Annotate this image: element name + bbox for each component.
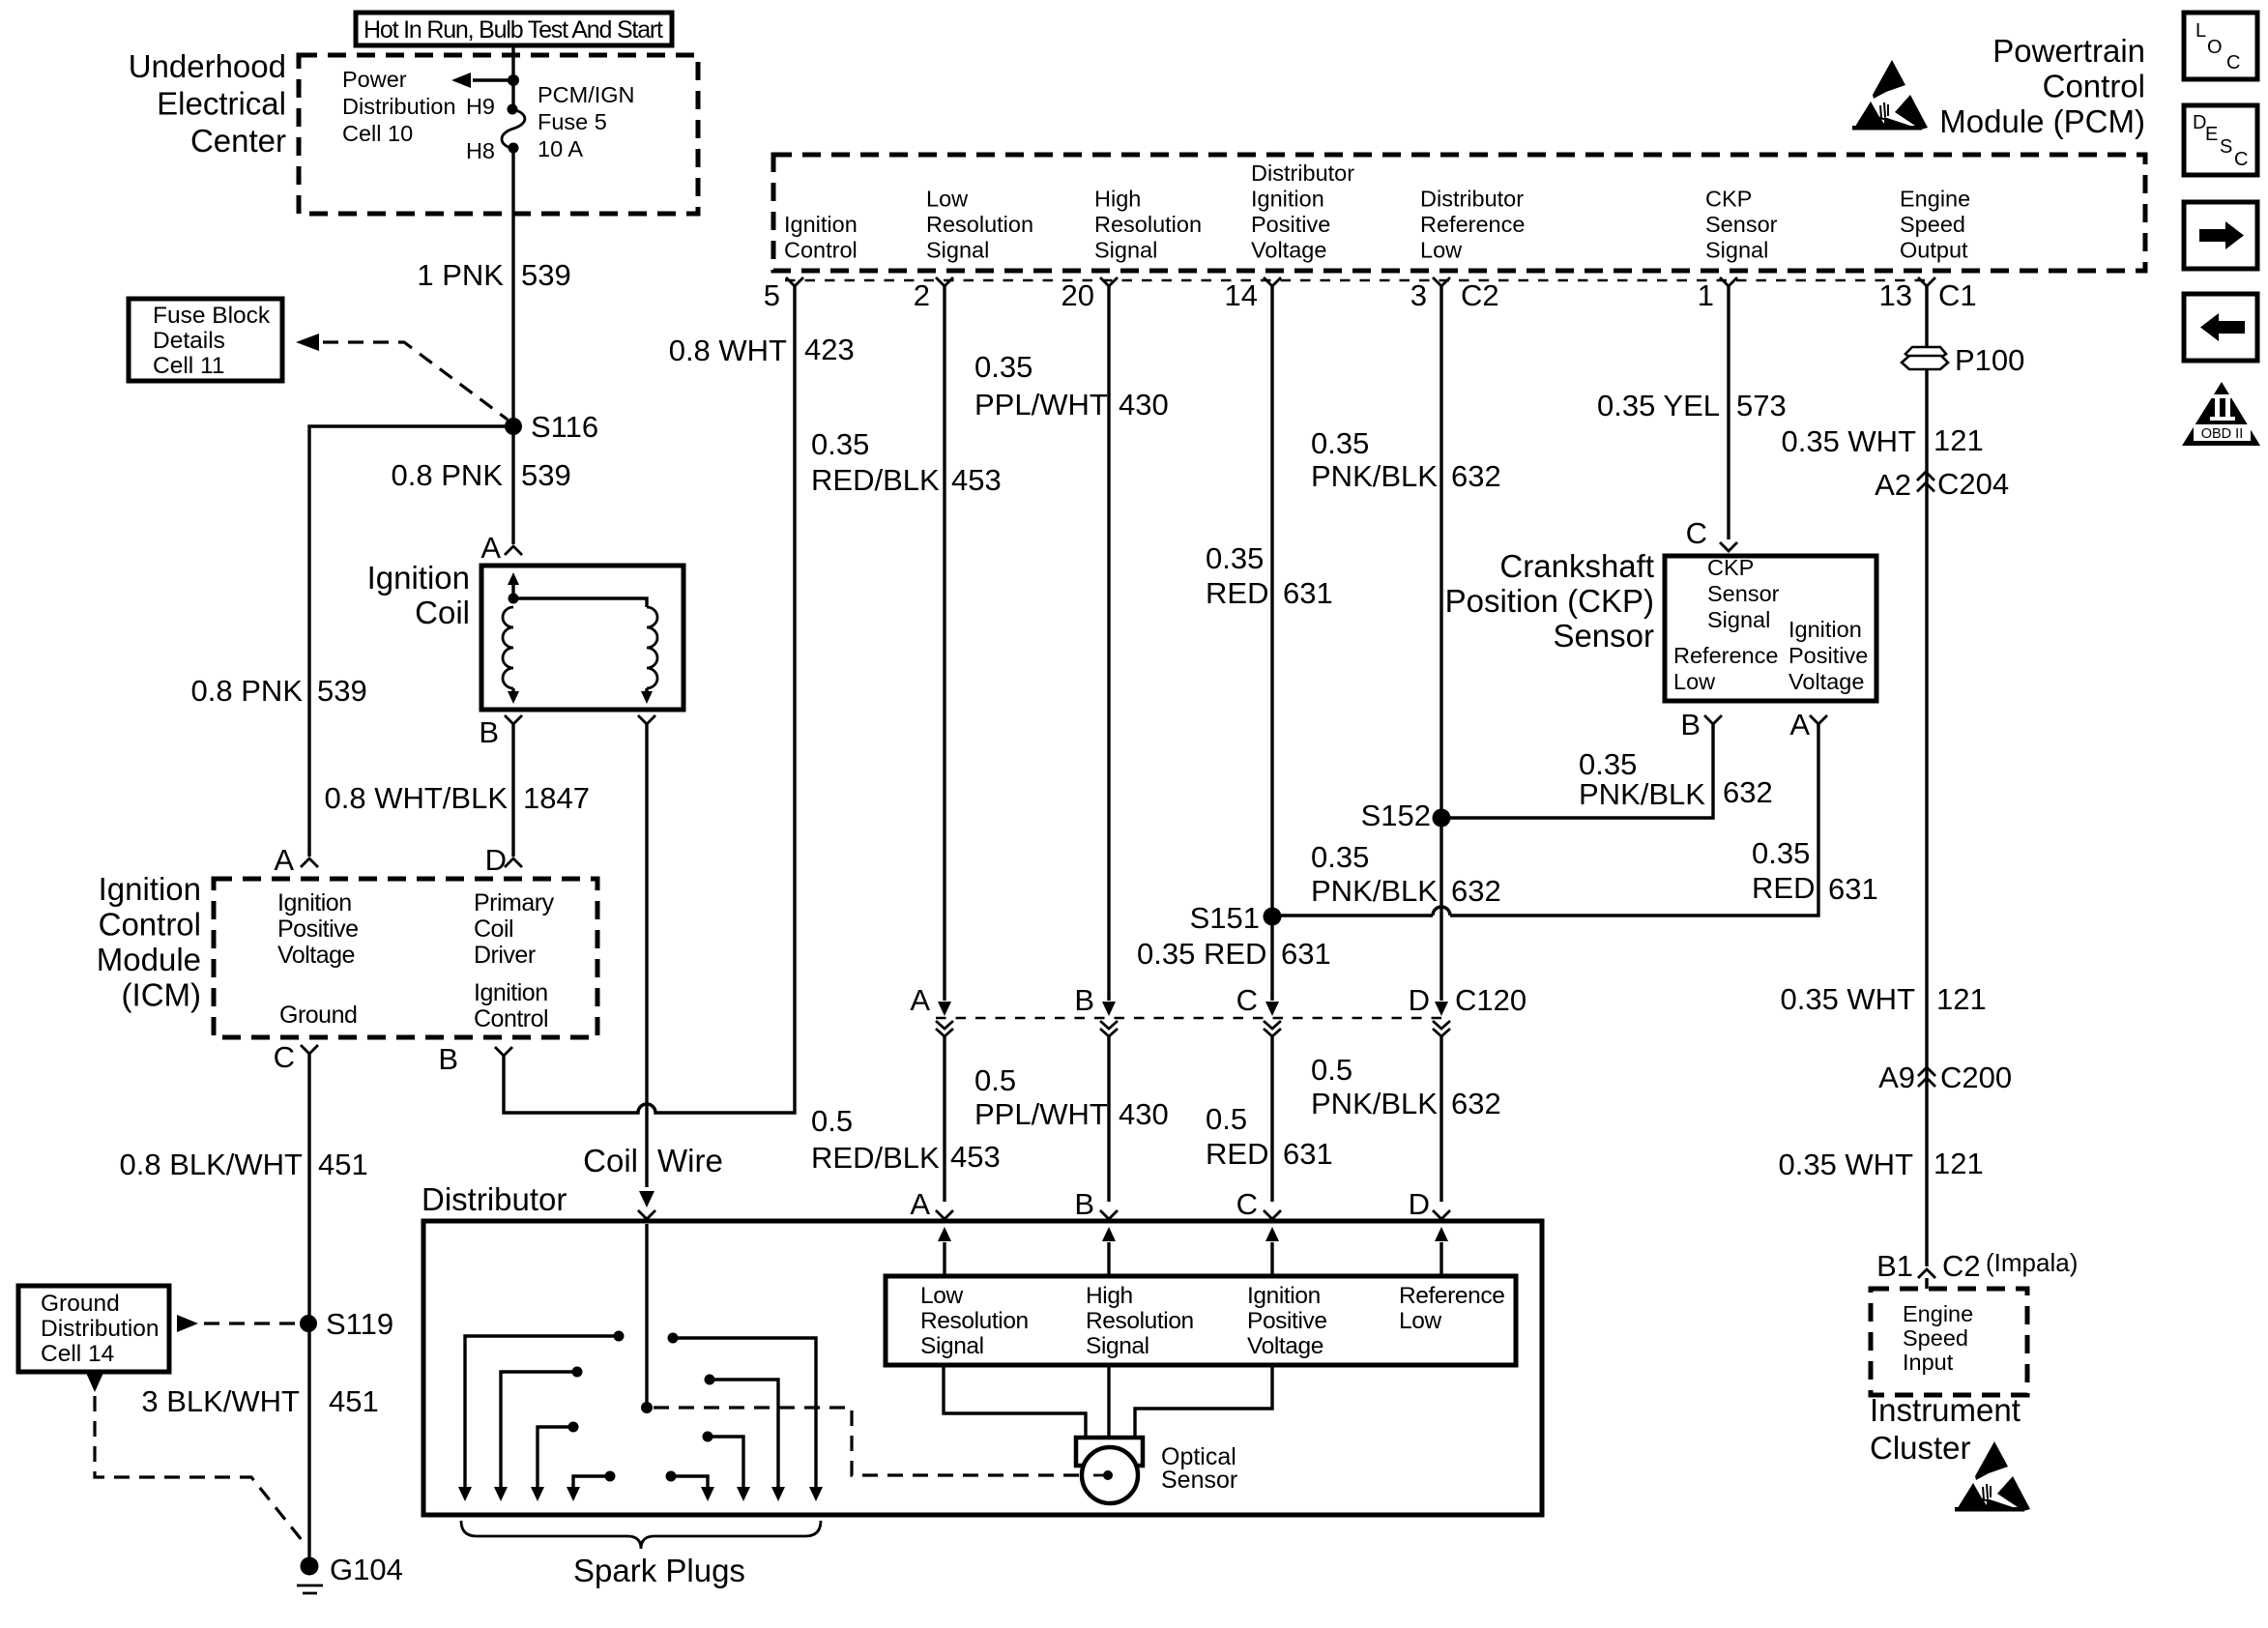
wire 0.8 PNK 539 (S116 down to coil A): [392, 426, 571, 544]
coil secondary winding: [513, 598, 657, 704]
svg-text:Ground: Ground: [41, 1291, 120, 1317]
svg-text:0.5: 0.5: [974, 1063, 1016, 1097]
connector label C2: [1461, 278, 1499, 312]
svg-text:Distribution: Distribution: [41, 1316, 160, 1342]
svg-text:Ignition: Ignition: [367, 560, 470, 596]
svg-text:Reference: Reference: [1420, 212, 1525, 237]
Fuse Block Details callout box: [129, 299, 282, 381]
svg-text:Coil: Coil: [415, 595, 470, 630]
svg-text:C2: C2: [1461, 278, 1499, 312]
svg-text:C: C: [1686, 516, 1707, 550]
svg-text:Primary: Primary: [474, 889, 555, 916]
svg-text:Low: Low: [1420, 238, 1463, 263]
svg-text:S116: S116: [531, 410, 598, 444]
connector label C120: [1455, 983, 1527, 1017]
label Distributor: [422, 1181, 567, 1217]
svg-text:RED/BLK: RED/BLK: [811, 463, 940, 497]
svg-text:Resolution: Resolution: [1094, 212, 1202, 237]
svg-text:Positive: Positive: [1247, 1308, 1327, 1334]
svg-text:121: 121: [1934, 423, 1984, 457]
CKP pin C: [1686, 516, 1737, 551]
svg-text:PPL/WHT: PPL/WHT: [974, 1097, 1108, 1131]
PCM connector C1/C2 dashed line: [785, 279, 1934, 282]
svg-text:0.35: 0.35: [1206, 541, 1264, 575]
svg-text:Speed: Speed: [1903, 1325, 1968, 1351]
junction dot and arrow to power distribution: [451, 73, 519, 88]
svg-text:Fuse 5: Fuse 5: [538, 109, 607, 134]
svg-text:Instrument: Instrument: [1870, 1392, 2021, 1428]
svg-text:Distributor: Distributor: [1420, 187, 1524, 212]
svg-text:Electrical: Electrical: [157, 86, 286, 122]
svg-text:Voltage: Voltage: [1247, 1333, 1323, 1359]
connector B1 C2 (Impala): [1876, 1248, 2078, 1289]
svg-text:539: 539: [317, 674, 367, 708]
svg-text:631: 631: [1828, 872, 1878, 906]
svg-text:PPL/WHT: PPL/WHT: [974, 388, 1108, 422]
svg-text:451: 451: [318, 1148, 368, 1181]
distributor pin D: [1409, 1187, 1450, 1221]
svg-text:Cell 10: Cell 10: [342, 121, 413, 146]
PCM label CKP Sensor Signal: [1705, 187, 1778, 263]
wire 0.35 RED/BLK 453 (pin 2 to C120 A): [811, 286, 1002, 1016]
svg-text:Wire: Wire: [657, 1143, 723, 1178]
rotor dashed link to optical sensor: [654, 1408, 1079, 1475]
label Engine Speed Input: [1903, 1301, 1973, 1375]
coil primary winding: [503, 572, 519, 704]
Crankshaft Position Sensor box: [1665, 556, 1876, 701]
svg-text:Positive: Positive: [277, 916, 359, 943]
wire 0.35 WHT 121 (pin 13, engine speed output): [1781, 286, 1983, 1266]
ICM label Primary Coil Driver: [474, 889, 555, 969]
forward arrow box: [2184, 202, 2257, 269]
svg-text:Control: Control: [474, 1005, 548, 1032]
distributor internal terminal arrow: [1265, 1227, 1279, 1276]
svg-text:S152: S152: [1361, 799, 1431, 832]
ignition coil pin A: [480, 531, 522, 565]
svg-text:B: B: [1074, 1187, 1094, 1221]
svg-text:Cluster: Cluster: [1870, 1430, 1971, 1466]
ICM label Ignition Positive Voltage: [277, 889, 359, 969]
spark plug wire 2: [494, 1367, 583, 1502]
svg-text:Module (PCM): Module (PCM): [1939, 103, 2145, 139]
svg-text:Output: Output: [1900, 238, 1968, 263]
svg-text:Positive: Positive: [1788, 643, 1868, 668]
svg-text:Ignition: Ignition: [1788, 617, 1862, 642]
svg-text:1 PNK: 1 PNK: [417, 258, 504, 292]
svg-text:Signal: Signal: [926, 238, 989, 263]
wire 0.35 PNK/BLK 632 (pin 3 to S152): [1311, 286, 1501, 822]
svg-text:0.5: 0.5: [1206, 1102, 1247, 1136]
svg-text:0.35: 0.35: [1579, 747, 1637, 781]
PCM pin 1: [1698, 277, 1737, 312]
svg-text:Low: Low: [1399, 1308, 1441, 1334]
wire ICM B to PCM pin 5 (ignition control): [504, 286, 795, 1113]
svg-text:C120: C120: [1455, 983, 1527, 1017]
svg-text:PCM/IGN: PCM/IGN: [538, 82, 635, 107]
svg-text:631: 631: [1283, 576, 1333, 610]
wire 0.35 RED 631 (CKP A to S151): [1272, 724, 1878, 916]
svg-text:Signal: Signal: [1707, 607, 1770, 632]
label Spark Plugs: [573, 1553, 745, 1588]
label Power Distribution Cell 10: [342, 67, 456, 146]
svg-text:Sensor: Sensor: [1705, 212, 1778, 237]
splice S116: [505, 410, 598, 444]
svg-text:Resolution: Resolution: [926, 212, 1033, 237]
svg-text:Positive: Positive: [1251, 212, 1330, 237]
label Ignition Coil: [367, 560, 470, 630]
svg-text:453: 453: [950, 1140, 1001, 1174]
svg-text:A: A: [910, 1187, 930, 1221]
label 0.8 PNK 539 (left branch): [191, 674, 367, 708]
distributor internal terminal arrow: [1102, 1227, 1116, 1276]
label Crankshaft Position (CKP) Sensor: [1445, 548, 1654, 654]
coil pin B: [479, 715, 522, 749]
wire 0.8 BLK/WHT 451 (ICM C to S119): [120, 1054, 368, 1557]
svg-text:PNK/BLK: PNK/BLK: [1311, 459, 1438, 493]
connector C120 pin C: [1236, 983, 1281, 1036]
svg-text:0.35: 0.35: [811, 427, 869, 461]
label Powertrain Control Module (PCM): [1939, 33, 2145, 139]
svg-text:2: 2: [914, 278, 930, 312]
svg-text:Low: Low: [926, 187, 969, 212]
svg-text:Voltage: Voltage: [1251, 238, 1326, 263]
svg-text:O: O: [2207, 37, 2223, 58]
distributor box: [423, 1221, 1542, 1515]
svg-text:631: 631: [1283, 1137, 1333, 1171]
svg-text:Driver: Driver: [474, 942, 536, 969]
Underhood Electrical Center dashed box: [299, 55, 698, 214]
ICM label Ignition Control: [474, 979, 548, 1032]
distributor pin B: [1074, 1187, 1118, 1221]
svg-text:Powertrain: Powertrain: [1992, 33, 2145, 69]
svg-text:Low: Low: [1673, 669, 1716, 694]
svg-text:B1: B1: [1876, 1249, 1913, 1283]
svg-text:Control: Control: [784, 238, 858, 263]
dashed ground path from cell 14 box to G104: [86, 1373, 305, 1545]
svg-text:121: 121: [1934, 1147, 1984, 1180]
svg-text:OBD II: OBD II: [2201, 426, 2244, 442]
svg-text:C200: C200: [1940, 1061, 2012, 1094]
spark plug wire 4: [567, 1471, 616, 1502]
svg-text:451: 451: [329, 1384, 379, 1418]
spark plugs brace: [461, 1521, 821, 1549]
svg-text:A9: A9: [1878, 1061, 1915, 1094]
svg-text:Ground: Ground: [279, 1002, 357, 1029]
svg-text:0.5: 0.5: [811, 1104, 853, 1138]
svg-text:Signal: Signal: [920, 1333, 984, 1359]
svg-text:B: B: [1680, 708, 1701, 741]
dashed arrow from S116 to Fuse Block Details: [296, 334, 508, 420]
LOC navigation box: [2184, 13, 2257, 79]
svg-text:CKP: CKP: [1707, 555, 1754, 580]
svg-text:Signal: Signal: [1086, 1333, 1149, 1359]
svg-text:Fuse Block: Fuse Block: [153, 303, 271, 329]
svg-text:Reference: Reference: [1673, 643, 1778, 668]
PCM pin 13: [1879, 277, 1935, 312]
CKP pin A: [1789, 708, 1827, 741]
coil tower terminal: [638, 1210, 655, 1219]
svg-text:0.35: 0.35: [1752, 836, 1810, 870]
wire 0.35 PNK/BLK 632 (CKP B to S152): [1441, 724, 1773, 818]
svg-text:Reference: Reference: [1399, 1283, 1504, 1309]
distributor label Low Resolution Signal: [920, 1283, 1029, 1359]
connector C120 pin D: [1409, 983, 1450, 1036]
svg-text:C204: C204: [1937, 467, 2009, 501]
svg-text:P100: P100: [1955, 343, 2024, 377]
svg-text:0.35: 0.35: [1311, 840, 1369, 874]
svg-text:RED/BLK: RED/BLK: [811, 1141, 940, 1175]
connector label C1: [1938, 278, 1977, 312]
wire 0.5 RED/BLK 453 (C120 A to distributor A): [811, 1036, 1001, 1202]
back arrow box: [2184, 294, 2257, 361]
svg-text:C: C: [2226, 52, 2240, 73]
svg-text:Distribution: Distribution: [342, 94, 456, 119]
svg-text:Ignition: Ignition: [474, 979, 548, 1006]
svg-text:A: A: [274, 843, 294, 877]
svg-text:632: 632: [1451, 1087, 1501, 1120]
svg-text:Underhood: Underhood: [129, 48, 286, 84]
svg-text:Details: Details: [153, 328, 225, 354]
wire 0.35 RED 631 (pin 14 to S151): [1206, 286, 1333, 916]
splice S151: [1190, 901, 1282, 935]
svg-text:A: A: [1789, 708, 1810, 741]
svg-text:Distributor: Distributor: [422, 1181, 567, 1217]
ignition coil box: [481, 566, 683, 710]
svg-text:C: C: [1236, 983, 1258, 1017]
svg-text:0.35 WHT: 0.35 WHT: [1780, 982, 1915, 1016]
ICM pin C: [274, 1040, 318, 1074]
svg-text:632: 632: [1723, 775, 1773, 809]
PCM label Ignition Control: [784, 212, 858, 263]
svg-text:Position (CKP): Position (CKP): [1445, 583, 1654, 619]
svg-text:453: 453: [951, 463, 1002, 497]
svg-text:L: L: [2195, 20, 2206, 42]
ICM pin D: [485, 843, 522, 877]
svg-text:Ignition: Ignition: [277, 889, 352, 916]
svg-text:539: 539: [521, 258, 571, 292]
svg-text:H8: H8: [466, 138, 495, 163]
wire 0.5 RED 631 (C120 C to distributor C): [1206, 1036, 1333, 1202]
svg-text:C: C: [2234, 149, 2248, 170]
OBD II symbol: [2182, 382, 2260, 446]
wire 0.35 PPL/WHT 430 (pin 20 to C120 B): [974, 286, 1169, 1016]
splice S119: [300, 1307, 393, 1341]
wire 0.35 YEL 573 (pin 1 to CKP C): [1597, 286, 1787, 539]
svg-text:423: 423: [804, 333, 855, 366]
svg-text:13: 13: [1879, 278, 1912, 312]
svg-text:PNK/BLK: PNK/BLK: [1311, 1087, 1438, 1120]
label Instrument Cluster: [1870, 1392, 2021, 1466]
wire 0.5 PPL/WHT 430 (C120 B to distributor B): [974, 1036, 1169, 1202]
svg-text:Hot In Run, Bulb Test And Star: Hot In Run, Bulb Test And Start: [363, 16, 663, 44]
svg-text:C: C: [1236, 1187, 1258, 1221]
label 0.35 WHT 121 (mid): [1780, 982, 1986, 1016]
svg-text:D: D: [1409, 983, 1430, 1017]
svg-text:Spark Plugs: Spark Plugs: [573, 1553, 745, 1588]
svg-text:A: A: [910, 983, 930, 1017]
svg-text:Resolution: Resolution: [1086, 1308, 1194, 1334]
svg-text:D: D: [485, 843, 507, 877]
connector C120 dashed line: [936, 1017, 1450, 1020]
optical sensor: [944, 1365, 1272, 1503]
svg-text:C2: C2: [1942, 1249, 1981, 1283]
spark plug wire 5: [666, 1471, 715, 1502]
svg-text:632: 632: [1451, 874, 1501, 908]
svg-text:Control: Control: [99, 907, 201, 943]
svg-text:1847: 1847: [523, 781, 590, 815]
PCM pin 5: [764, 277, 803, 312]
svg-text:A: A: [480, 531, 501, 565]
svg-text:H9: H9: [466, 94, 495, 119]
svg-text:3 BLK/WHT: 3 BLK/WHT: [141, 1384, 300, 1418]
PCM label Distributor Ignition Positive Voltage: [1251, 160, 1354, 263]
svg-text:CKP: CKP: [1705, 187, 1752, 212]
wire 0.35 PNK/BLK 632 (S152 to C120 D): [1311, 818, 1501, 1016]
PCM label Distributor Reference Low: [1420, 187, 1525, 263]
ground G104: [297, 1553, 403, 1593]
svg-text:Speed: Speed: [1900, 212, 1965, 237]
svg-text:Cell 11: Cell 11: [153, 353, 224, 379]
label Underhood Electrical Center: [129, 48, 286, 159]
svg-text:0.8 WHT/BLK: 0.8 WHT/BLK: [325, 781, 509, 815]
distributor internal terminal arrow: [1435, 1227, 1448, 1276]
distributor pin C: [1236, 1187, 1281, 1221]
svg-text:Low: Low: [920, 1283, 963, 1309]
label Ignition Control Module (ICM): [97, 871, 201, 1013]
svg-text:B: B: [438, 1042, 458, 1076]
CKP pin B: [1680, 708, 1722, 741]
svg-text:RED: RED: [1206, 1137, 1268, 1171]
svg-text:Sensor: Sensor: [1553, 618, 1654, 654]
svg-text:S: S: [2220, 136, 2232, 158]
label 0.35 WHT 121 (lower): [1778, 1147, 1983, 1181]
wire 0.5 PNK/BLK 632 (C120 D to distributor D): [1311, 1036, 1501, 1202]
fuse F5 (PCM/IGN Fuse 5): [466, 94, 525, 163]
svg-text:Ignition: Ignition: [1247, 1283, 1321, 1309]
svg-text:Ignition: Ignition: [99, 871, 201, 907]
svg-text:High: High: [1094, 187, 1141, 212]
svg-text:Center: Center: [190, 123, 286, 159]
CKP label Reference Low: [1673, 643, 1778, 694]
svg-text:Cell 14: Cell 14: [41, 1341, 114, 1367]
Engine Speed Input dashed box: [1871, 1289, 2027, 1395]
ICM pin A: [274, 843, 318, 877]
svg-text:Ignition: Ignition: [784, 212, 858, 237]
spark plug wire 1: [458, 1331, 625, 1502]
svg-text:0.8 PNK: 0.8 PNK: [392, 458, 504, 492]
ICM pin B: [438, 1042, 512, 1076]
svg-text:10 A: 10 A: [538, 136, 583, 161]
svg-text:539: 539: [521, 458, 571, 492]
Powertrain Control Module dashed box: [773, 155, 2145, 271]
dashed arrow Ground Distribution to S119: [177, 1315, 298, 1332]
svg-text:Input: Input: [1903, 1350, 1954, 1375]
ICM label Ground: [279, 1002, 357, 1029]
svg-text:Engine: Engine: [1903, 1301, 1973, 1326]
svg-text:Resolution: Resolution: [920, 1308, 1029, 1334]
svg-text:Module: Module: [97, 942, 201, 977]
svg-text:Signal: Signal: [1094, 238, 1157, 263]
distributor label Reference Low: [1399, 1283, 1504, 1334]
svg-text:1: 1: [1698, 278, 1714, 312]
distributor inner connections box: [886, 1276, 1516, 1365]
svg-text:High: High: [1086, 1283, 1133, 1309]
ESD warning symbol (instrument cluster): [1955, 1441, 2030, 1512]
pass-through grommet P100: [1902, 343, 2024, 377]
svg-text:Coil: Coil: [474, 916, 513, 943]
Ignition Control Module dashed box: [214, 879, 597, 1037]
svg-text:14: 14: [1225, 278, 1258, 312]
svg-text:Signal: Signal: [1705, 238, 1768, 263]
wire 0.8 WHT 423 (pin 5): [669, 333, 855, 367]
CKP label Ignition Positive Voltage: [1788, 617, 1868, 694]
label PCM/IGN Fuse 5 10 A: [538, 82, 635, 161]
PCM label Low Resolution Signal: [926, 187, 1033, 263]
svg-text:0.35: 0.35: [1311, 426, 1369, 460]
connector C120 pin A: [910, 983, 953, 1036]
PCM pin 14: [1225, 277, 1281, 312]
power feed box "Hot In Run, Bulb Test And Start": [356, 13, 672, 45]
svg-text:C: C: [274, 1040, 295, 1074]
PCM pin 3: [1410, 277, 1450, 312]
distributor internal terminal arrow: [938, 1227, 951, 1276]
CKP label CKP Sensor Signal: [1707, 555, 1780, 632]
ESD warning symbol (PCM): [1852, 60, 1928, 131]
distributor label High Resolution Signal: [1086, 1283, 1194, 1359]
spark plug wire 3: [531, 1422, 579, 1502]
svg-text:0.8 PNK: 0.8 PNK: [191, 674, 304, 708]
svg-text:RED: RED: [1752, 871, 1815, 905]
svg-text:0.35: 0.35: [974, 350, 1032, 384]
svg-text:(ICM): (ICM): [122, 977, 201, 1013]
coil secondary terminal: [638, 715, 655, 724]
svg-text:0.5: 0.5: [1311, 1053, 1352, 1087]
svg-text:G104: G104: [330, 1553, 403, 1586]
svg-text:0.35 YEL: 0.35 YEL: [1597, 389, 1720, 422]
svg-text:PNK/BLK: PNK/BLK: [1579, 777, 1705, 811]
svg-text:C1: C1: [1938, 278, 1977, 312]
svg-text:Control: Control: [2043, 69, 2145, 104]
PCM pin 2: [914, 277, 953, 312]
distributor label Ignition Positive Voltage: [1247, 1283, 1327, 1359]
Ground Distribution callout box: [18, 1286, 169, 1372]
svg-text:0.35 WHT: 0.35 WHT: [1781, 424, 1916, 458]
svg-text:573: 573: [1736, 389, 1787, 422]
in-line connector A9 C200: [1878, 1061, 2012, 1094]
svg-text:E: E: [2205, 124, 2218, 145]
svg-text:RED: RED: [1206, 576, 1268, 610]
svg-text:Sensor: Sensor: [1707, 581, 1780, 606]
spark plug wire 8: [668, 1333, 824, 1502]
svg-text:0.35 WHT: 0.35 WHT: [1778, 1148, 1913, 1181]
svg-text:121: 121: [1936, 982, 1987, 1016]
svg-text:Engine: Engine: [1900, 187, 1970, 212]
svg-text:(Impala): (Impala): [1986, 1248, 2078, 1277]
svg-text:0.8 WHT: 0.8 WHT: [669, 334, 787, 367]
svg-text:Power: Power: [342, 67, 407, 92]
svg-text:5: 5: [764, 278, 780, 312]
svg-text:PNK/BLK: PNK/BLK: [1311, 874, 1438, 908]
PCM label Engine Speed Output: [1900, 187, 1970, 263]
svg-text:A2: A2: [1875, 468, 1911, 502]
label 3 BLK/WHT 451: [141, 1384, 378, 1418]
spark plug wire 6: [703, 1432, 751, 1502]
spark plug wire 7: [705, 1375, 786, 1502]
svg-text:D: D: [1409, 1187, 1430, 1221]
wire 1 PNK 539 (fuse to S116): [417, 152, 570, 426]
wire from power box to fuse: [511, 45, 514, 107]
distributor pin A: [910, 1187, 953, 1221]
